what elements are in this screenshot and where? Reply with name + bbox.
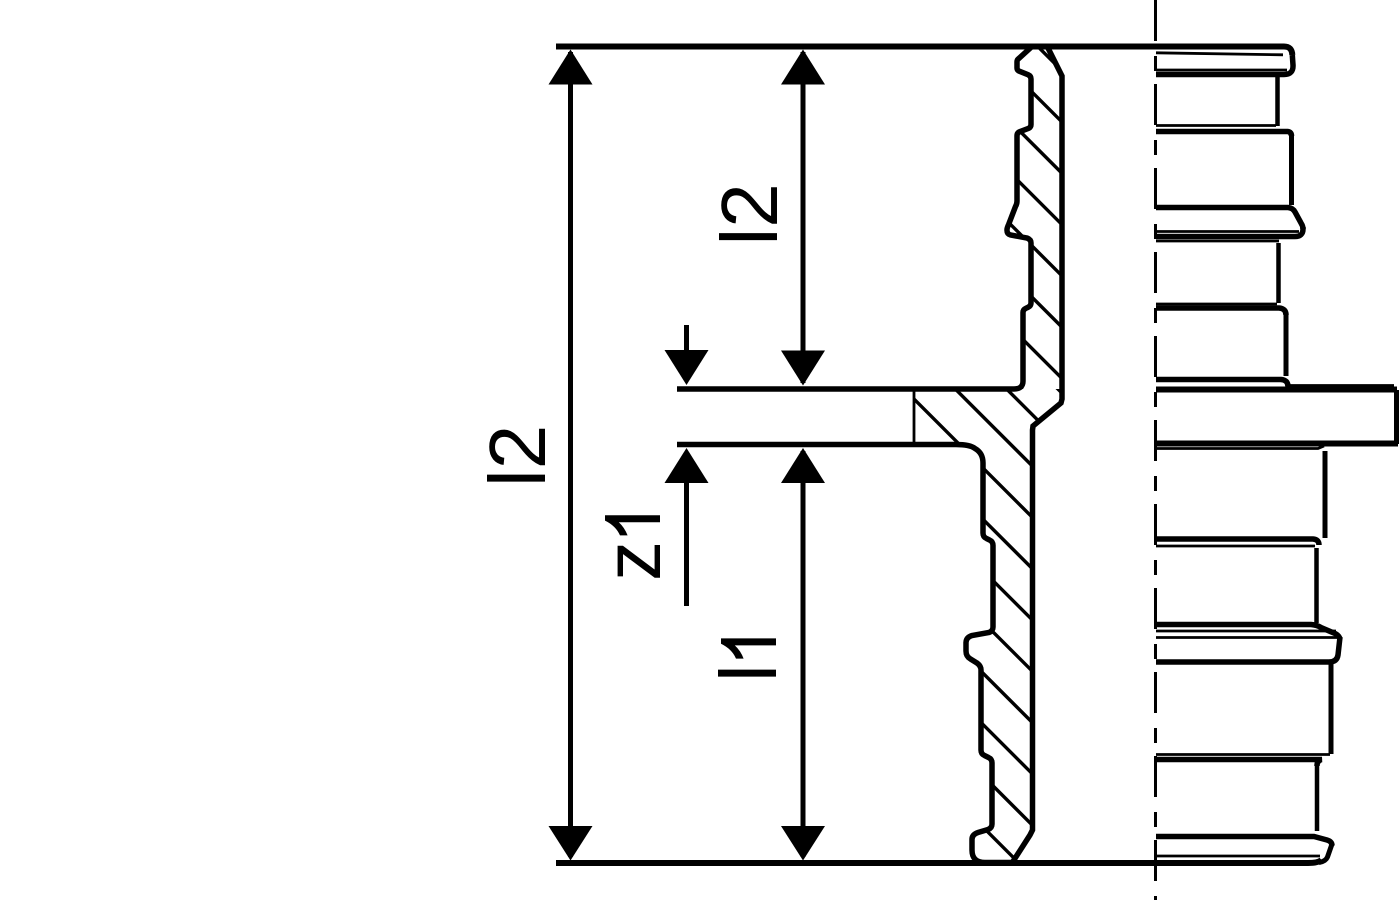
bottom edge line with extension: [556, 860, 1322, 863]
right view: flare slope lower: [1156, 625, 1340, 640]
flange top edge: [1156, 387, 1397, 393]
dimension l1: line: [801, 451, 806, 857]
left section: bore inner profile: [1013, 48, 1062, 862]
right view: neck 4: [1315, 762, 1320, 831]
dimension l2 upper: line: [801, 52, 806, 383]
right view: bottom cap chamfer line: [1156, 855, 1320, 858]
right view: top cap (barb ring A): [1156, 53, 1283, 55]
left section: flange outer edge (thin): [913, 390, 916, 444]
dimension l1: bottom arrowhead: [781, 826, 825, 861]
right view: ring D edge: [1284, 313, 1289, 376]
hatching of cut section: flange and lower spigot: [860, 191, 1200, 900]
left section: lower outer profile: [677, 445, 1013, 863]
top edge line with extension: [556, 47, 1292, 56]
flange reference arrow above: [684, 325, 689, 355]
centerline (dash-dot axis): [1154, 0, 1157, 900]
dimension l1: label: [704, 638, 793, 682]
right view: flange bottom chamfer line: [1156, 446, 1324, 449]
right view: flare ring F bottom: [1156, 637, 1340, 662]
svg-text:l: l: [704, 664, 793, 682]
svg-text:l2: l2: [473, 425, 562, 487]
right view: neck 3: [1314, 548, 1319, 623]
right view: bottom cap flare: [1156, 837, 1332, 846]
svg-text:z: z: [588, 541, 677, 581]
dimension z1: tail line and arrowhead: [684, 478, 689, 606]
dimension l2 overall: top arrowhead: [549, 50, 593, 85]
dimension l2 upper: top arrowhead: [781, 50, 825, 85]
dimension l2 upper: bottom arrowhead: [781, 351, 825, 386]
right view: ring B bottom + flare slope: [1156, 208, 1303, 230]
right view: neck 2: [1276, 243, 1281, 303]
right view: shoulder lines at 304/308: [1156, 303, 1277, 306]
right view: bottom cap right edge: [1319, 844, 1332, 863]
dimension l2 overall: line: [568, 52, 573, 857]
right view: shoulder lines at 125/131: [1156, 124, 1276, 127]
dimension l1: top arrowhead: [781, 448, 825, 483]
right view: neck 1: [1275, 76, 1280, 126]
right view: ring B edge: [1289, 134, 1294, 205]
right view: ring E edge: [1323, 451, 1328, 538]
hatching of cut section: upper spigot: [880, 0, 1200, 568]
flange bottom edge: [1156, 441, 1398, 447]
right view: ring G bottom: [1156, 753, 1330, 756]
right view: ring E bottom: [1156, 539, 1319, 545]
right view: flange top chamfer line: [1290, 384, 1394, 387]
right view: ring D bottom: [1156, 380, 1288, 390]
right view: ring G edge: [1329, 664, 1334, 754]
svg-text:l2: l2: [705, 183, 794, 245]
dimension z1: label: [588, 515, 677, 581]
flange right edge: [1394, 390, 1399, 444]
right view: flare ring C bottom edges: [1156, 227, 1303, 237]
left section: upper outer profile: [677, 47, 1032, 390]
dimension l2 overall: bottom arrowhead: [549, 826, 593, 861]
